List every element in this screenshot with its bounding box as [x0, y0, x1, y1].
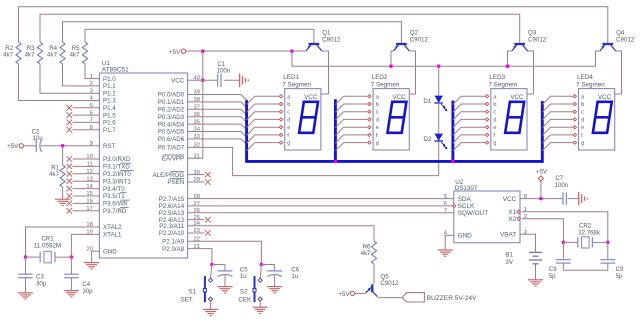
- svg-text:EA/VPP: EA/VPP: [162, 156, 184, 163]
- svg-text:e: e: [581, 125, 584, 131]
- svg-text:D1: D1: [423, 98, 431, 105]
- wire P0.5 to bus: [188, 132, 247, 138]
- switch S1: [209, 278, 213, 282]
- svg-text:+5V: +5V: [169, 49, 181, 56]
- bus horizontal: [245, 160, 542, 163]
- wire +5V to VCC: [540, 181, 542, 199]
- wire P0.0 to bus: [188, 95, 247, 101]
- svg-text:P0.0/AD0: P0.0/AD0: [158, 92, 185, 99]
- svg-text:P0.4/AD4: P0.4/AD4: [158, 121, 185, 128]
- no-connect X pin 13: [67, 178, 73, 184]
- svg-text:VCC: VCC: [171, 77, 185, 84]
- svg-text:GND: GND: [103, 249, 117, 256]
- svg-text:P1.3: P1.3: [103, 98, 116, 105]
- wire R3 to P1.2: [40, 64, 99, 93]
- wire C2 to RST: [41, 145, 99, 147]
- wire P2.1 to S2: [188, 241, 262, 264]
- wire P0.7 colon feed: [188, 141, 439, 175]
- wire base rail R3 to Q3: [40, 14, 520, 43]
- svg-text:32.768k: 32.768k: [578, 230, 601, 237]
- node CR1 right junction: [70, 255, 74, 259]
- transistor Q1: [309, 43, 320, 45]
- svg-text:VCC: VCC: [598, 94, 612, 101]
- U1 pin 25 stub: [188, 219, 205, 221]
- ground (C3): [18, 292, 33, 294]
- svg-text:Q1: Q1: [322, 29, 331, 36]
- svg-text:4k7: 4k7: [70, 52, 80, 59]
- svg-text:C9012: C9012: [616, 37, 635, 44]
- no-connect X pin 14: [67, 186, 73, 192]
- wire Q5 collector to buzzer: [377, 297, 402, 299]
- svg-text:SDA: SDA: [458, 196, 472, 203]
- svg-text:SET: SET: [181, 297, 193, 304]
- svg-text:1: 1: [90, 74, 93, 80]
- svg-text:CR2: CR2: [579, 223, 592, 230]
- wire junction to C5: [212, 265, 225, 271]
- no-connect X pin 30: [205, 172, 211, 178]
- wire C5 to ground: [224, 275, 226, 287]
- ground (S2): [253, 306, 268, 308]
- svg-text:1u: 1u: [240, 273, 247, 280]
- svg-text:P1.6: P1.6: [103, 120, 116, 127]
- wire C9 top: [607, 242, 609, 259]
- capacitor C9: [600, 259, 615, 261]
- wire R1 to ground: [62, 187, 64, 199]
- wire XTAL2 to crystal: [26, 227, 100, 257]
- svg-text:VCC: VCC: [510, 94, 524, 101]
- node Q2 emitter junction: [389, 64, 393, 68]
- svg-text:7 Segmen: 7 Segmen: [576, 82, 605, 89]
- no-connect X pin 10: [67, 156, 73, 162]
- bus vertical (LED3): [451, 101, 454, 162]
- wire P0.6 to bus: [188, 139, 247, 145]
- wire B1 to ground: [535, 264, 537, 280]
- svg-text:P2.7/A15: P2.7/A15: [159, 196, 185, 203]
- transistor Q2: [396, 43, 407, 45]
- transistor Q3: [514, 43, 525, 45]
- wires bus entries to LED3 pins: [453, 96, 485, 104]
- node S2 junction: [260, 263, 264, 267]
- no-connect X pin 8: [67, 127, 73, 133]
- wire base rail R5 to Q1: [85, 29, 314, 43]
- U1 pin 13 stub: [73, 180, 100, 182]
- svg-text:Q2: Q2: [410, 29, 419, 36]
- svg-text:P1.2: P1.2: [103, 90, 116, 97]
- svg-text:c: c: [287, 110, 290, 116]
- svg-text:D2: D2: [423, 136, 431, 143]
- svg-text:Q4: Q4: [616, 29, 625, 36]
- svg-text:X2: X2: [508, 216, 516, 223]
- no-connect X pin 29: [205, 179, 211, 185]
- node U2 VCC junction: [539, 197, 543, 201]
- wire crystal CR1 right lead: [55, 256, 71, 258]
- wire CR1 to C4: [70, 257, 72, 274]
- svg-text:b: b: [493, 102, 496, 108]
- svg-text:P3.2/INT0: P3.2/INT0: [103, 171, 131, 178]
- svg-text:C9012: C9012: [322, 37, 341, 44]
- svg-text:P3.0/RXD: P3.0/RXD: [103, 156, 131, 163]
- svg-text:P0.5/AD5: P0.5/AD5: [158, 129, 185, 136]
- wire +5V rail: [186, 50, 306, 52]
- svg-text:3: 3: [90, 88, 93, 94]
- wire Q4 emitter drop: [596, 51, 600, 66]
- svg-text:11.0592M: 11.0592M: [34, 243, 62, 250]
- wires bus entries to LED2 pins: [335, 96, 367, 104]
- svg-text:P1.1: P1.1: [103, 83, 116, 90]
- U1 pin 6 stub: [73, 114, 100, 116]
- U1 pin 30 stub: [188, 174, 205, 176]
- svg-text:P3.1/TXD: P3.1/TXD: [103, 164, 130, 171]
- svg-text:XTAL2: XTAL2: [103, 224, 122, 231]
- capacitor C3: [18, 273, 32, 275]
- svg-text:P2.1/A9: P2.1/A9: [162, 239, 185, 246]
- svg-text:LED2: LED2: [372, 74, 388, 81]
- node bus junction LED2: [334, 160, 338, 164]
- wires bus entries to LED1 pins: [247, 96, 280, 104]
- resistor R4: [60, 42, 65, 64]
- svg-text:7 Segmen: 7 Segmen: [371, 82, 400, 89]
- wire XTAL1 to crystal: [71, 234, 99, 257]
- node RST junction: [61, 144, 65, 148]
- ground (S1): [203, 308, 218, 310]
- svg-text:BUZZER 5V-24V: BUZZER 5V-24V: [427, 295, 477, 302]
- svg-text:C9012: C9012: [528, 37, 547, 44]
- wire P2.5 to SQW/OUT: [188, 212, 454, 214]
- capacitor C4: [64, 273, 78, 275]
- wire U1 GND: [92, 251, 100, 262]
- U1 pin 15 stub: [73, 195, 100, 197]
- wire C1 to ground: [224, 79, 240, 81]
- capacitor C8: [556, 259, 571, 261]
- bus vertical (LED2): [334, 99, 337, 161]
- svg-text:4k7: 4k7: [361, 250, 371, 257]
- svg-text:e: e: [493, 125, 496, 131]
- wire VBAT to B1: [520, 234, 536, 252]
- svg-text:P1.4: P1.4: [103, 105, 116, 112]
- resistor R5: [82, 42, 87, 64]
- svg-text:S1: S1: [188, 289, 196, 296]
- svg-text:XTAL1: XTAL1: [103, 232, 122, 239]
- no-connect X pin 7: [67, 120, 73, 126]
- wire Q3 emitter drop: [508, 51, 512, 66]
- svg-text:C9012: C9012: [410, 37, 429, 44]
- wire P2.0 to S1: [188, 249, 212, 265]
- ground (C1): [239, 74, 241, 87]
- svg-text:VCC: VCC: [393, 94, 407, 101]
- svg-text:100n: 100n: [555, 182, 569, 189]
- wire D1 to D2: [438, 103, 440, 134]
- svg-text:ALE/PROG: ALE/PROG: [153, 172, 185, 179]
- svg-text:g: g: [581, 141, 584, 147]
- U1 pin 5 stub: [73, 107, 100, 109]
- wire base rail R4 to Q2: [63, 22, 402, 43]
- U1 pin 12 stub: [73, 173, 100, 175]
- svg-text:3V: 3V: [505, 259, 513, 266]
- svg-text:d: d: [287, 117, 290, 123]
- svg-text:VCC: VCC: [304, 94, 318, 101]
- wires bus entries to LED4 pins: [542, 96, 573, 104]
- U1 pin 16 stub: [73, 202, 100, 204]
- svg-text:P3.5/T1: P3.5/T1: [103, 193, 125, 200]
- node rail-branch junction: [290, 49, 294, 53]
- svg-text:4k7: 4k7: [47, 52, 57, 59]
- wire C3 to ground: [25, 278, 27, 293]
- svg-text:e: e: [376, 125, 379, 131]
- bus vertical (LED4): [541, 101, 544, 163]
- svg-text:AT89C51: AT89C51: [102, 67, 129, 74]
- svg-text:g: g: [493, 141, 496, 147]
- no-connect X pin 11: [67, 164, 73, 170]
- ground (C5): [217, 286, 232, 288]
- svg-text:P3.6/WR: P3.6/WR: [103, 201, 128, 208]
- switch S2: [258, 278, 262, 282]
- svg-text:4k7: 4k7: [25, 52, 35, 59]
- wire R5 to P1.0: [85, 64, 99, 79]
- U1 pin 11 stub: [73, 165, 100, 167]
- terminal SCLK bubble: [453, 204, 456, 207]
- wire P0.3 to bus: [188, 117, 247, 123]
- U1 pin 17 stub: [73, 210, 100, 212]
- no-connect X pin 15: [67, 193, 73, 199]
- U1 pin 14 stub: [73, 188, 100, 190]
- svg-text:VCC: VCC: [503, 196, 517, 203]
- transistor Q4: [602, 43, 613, 45]
- wire junction to S2 top: [260, 265, 261, 279]
- svg-text:30p: 30p: [82, 288, 93, 295]
- wire R6 to Q5 base: [373, 264, 375, 284]
- node pin40 junction: [201, 78, 205, 82]
- svg-text:LED3: LED3: [489, 74, 505, 81]
- svg-text:c: c: [493, 110, 496, 116]
- svg-text:c: c: [376, 110, 379, 116]
- wire C6 to ground: [274, 275, 276, 287]
- wire R2 to P1.3: [19, 64, 100, 101]
- wire P2.3 to R6: [188, 226, 374, 241]
- node CR2 left junction: [562, 241, 566, 245]
- connector buzzer: [402, 293, 424, 302]
- svg-text:P1.7: P1.7: [103, 127, 116, 134]
- svg-text:C9012: C9012: [380, 280, 399, 287]
- svg-text:LED1: LED1: [283, 74, 299, 81]
- svg-text:4k7: 4k7: [49, 171, 59, 178]
- wire C8-C9 tie: [563, 263, 607, 270]
- node CR1 left junction: [24, 255, 28, 259]
- wire P0.2 to bus: [188, 109, 247, 115]
- no-connect X pin 12: [67, 171, 73, 177]
- wire Q1 collector to VCC pin: [321, 51, 329, 94]
- svg-text:5p: 5p: [616, 273, 623, 280]
- svg-text:GND: GND: [458, 233, 473, 240]
- svg-text:CR1: CR1: [41, 235, 54, 242]
- svg-text:B1: B1: [505, 252, 513, 259]
- svg-text:P1.5: P1.5: [103, 112, 116, 119]
- op-amp U1 AT89C51 body: [99, 73, 187, 258]
- resistor R6: [371, 241, 376, 264]
- no-connect X pin 6: [67, 112, 73, 118]
- wire C7 to ground: [568, 198, 579, 200]
- capacitor C6: [267, 270, 282, 272]
- resistor R2: [16, 42, 21, 64]
- svg-text:c: c: [581, 110, 584, 116]
- ground (C4): [64, 290, 79, 292]
- wire P2.6 to SCLK: [188, 205, 454, 207]
- wire crystal CR1 left lead: [26, 256, 41, 258]
- svg-text:d: d: [376, 117, 379, 123]
- svg-text:LED4: LED4: [577, 74, 593, 81]
- svg-text:P2.3/A11: P2.3/A11: [159, 223, 185, 230]
- svg-text:RST: RST: [103, 143, 116, 150]
- U1 pin 7 stub: [73, 121, 100, 123]
- wire U2 GND: [445, 235, 454, 249]
- IC U2 DS1307 body: [454, 191, 520, 243]
- wire S2 to ground: [259, 301, 261, 307]
- svg-text:S2: S2: [240, 289, 248, 296]
- node D1 anode junction: [437, 64, 441, 68]
- no-connect X pin 23: [205, 230, 211, 236]
- svg-text:d: d: [493, 117, 496, 123]
- wire crystal left lead: [563, 241, 577, 243]
- wire X2 to crystal left: [522, 219, 564, 243]
- svg-text:P0.6/AD6: P0.6/AD6: [158, 136, 185, 143]
- svg-text:SQW/OUT: SQW/OUT: [458, 210, 489, 217]
- node Q3 emitter junction: [506, 64, 510, 68]
- bus vertical (LED1): [245, 100, 248, 161]
- svg-text:b: b: [376, 102, 379, 108]
- wire CR1 to C3: [25, 257, 27, 274]
- wire Q3 collector to VCC pin: [527, 51, 534, 94]
- no-connect X pin 16: [67, 201, 73, 207]
- wire X1 to crystal right: [522, 212, 608, 243]
- svg-text:P0.7/AD7: P0.7/AD7: [158, 145, 185, 152]
- svg-text:P0.3/AD3: P0.3/AD3: [158, 114, 185, 121]
- wire P2.7 to SDA: [188, 198, 454, 200]
- svg-text:DS1307: DS1307: [455, 185, 478, 192]
- no-connect X pin 25: [205, 217, 211, 223]
- ground (U2): [438, 249, 453, 251]
- U1 pin 8 stub: [73, 129, 100, 131]
- U1 pin 10 stub: [73, 158, 100, 160]
- wire Q2 collector to VCC pin: [409, 51, 415, 94]
- LED D2: [434, 134, 443, 141]
- wire Q4 collector to VCC pin: [615, 51, 622, 94]
- svg-text:P2.2/A10: P2.2/A10: [159, 230, 185, 237]
- svg-text:CEK: CEK: [238, 297, 252, 304]
- wire +5V to Q5 emitter: [355, 292, 366, 294]
- svg-text:30p: 30p: [36, 280, 47, 287]
- resistor R1: [60, 165, 65, 187]
- wire Q2 emitter drop: [391, 51, 393, 66]
- svg-text:100n: 100n: [217, 68, 231, 75]
- wire base rail R2 to Q4: [19, 7, 608, 43]
- svg-text:+5V: +5V: [536, 168, 548, 175]
- svg-text:g: g: [376, 141, 379, 147]
- wire junction to R1: [62, 146, 64, 165]
- svg-text:4k7: 4k7: [3, 52, 13, 59]
- wire C4 to ground: [70, 278, 72, 291]
- svg-text:P0.2/AD2: P0.2/AD2: [158, 107, 185, 114]
- node bus junction LED3: [451, 160, 455, 164]
- node CR2 right junction: [606, 241, 610, 245]
- wire junction to S1 top: [211, 265, 212, 279]
- wire C8 top: [562, 242, 564, 259]
- ground (C7): [578, 192, 580, 205]
- no-connect X pin 5: [67, 105, 73, 111]
- svg-text:g: g: [287, 141, 290, 147]
- resistor R3: [37, 42, 42, 64]
- svg-text:5p: 5p: [549, 273, 556, 280]
- svg-text:b: b: [581, 102, 584, 108]
- wire S1 to ground: [210, 301, 212, 309]
- no-connect X pin 17: [67, 208, 73, 214]
- node S1 junction: [210, 263, 214, 267]
- svg-text:P1.0: P1.0: [103, 76, 116, 83]
- svg-text:P2.0/A8: P2.0/A8: [162, 246, 185, 253]
- svg-text:e: e: [287, 125, 290, 131]
- svg-text:7 Segmen: 7 Segmen: [282, 82, 311, 89]
- svg-text:1u: 1u: [291, 273, 298, 280]
- node rail-C1 junction: [201, 49, 205, 53]
- svg-text:X1: X1: [508, 209, 516, 216]
- terminal X1: [517, 210, 521, 214]
- svg-text:PSEN: PSEN: [167, 179, 184, 186]
- wire P0.4 to bus: [188, 124, 247, 130]
- svg-text:b: b: [287, 102, 290, 108]
- wire +5V to C2: [24, 145, 37, 147]
- U1 pin 23 stub: [188, 232, 205, 234]
- ground (U1 pin 20): [84, 262, 99, 264]
- svg-text:d: d: [581, 117, 584, 123]
- svg-text:VBAT: VBAT: [500, 232, 516, 239]
- ground (C6): [267, 286, 282, 288]
- U1 pin 29 stub: [188, 181, 205, 183]
- wire +5V to pin40 and EA: [188, 51, 203, 158]
- wire crystal right lead: [592, 241, 607, 243]
- svg-text:+5V: +5V: [7, 143, 19, 150]
- svg-text:P3.7/RD: P3.7/RD: [103, 208, 127, 215]
- wire pin40 VCC to C1: [188, 79, 218, 81]
- wire R4 to P1.1: [63, 64, 100, 86]
- svg-text:P3.4/T0: P3.4/T0: [103, 186, 125, 193]
- wire U2 VCC to C7: [520, 198, 563, 200]
- capacitor C5: [218, 270, 233, 272]
- svg-text:+5V: +5V: [338, 291, 350, 298]
- wire P0.1 to bus: [188, 102, 247, 108]
- wire +5V branch to lower rail: [292, 51, 596, 66]
- svg-text:P3.3/INT1: P3.3/INT1: [103, 178, 131, 185]
- wire +5V to D1: [438, 66, 440, 95]
- ground (B1): [528, 279, 543, 281]
- svg-text:2: 2: [90, 81, 93, 87]
- transistor Q5: [371, 284, 373, 292]
- svg-text:7 Segmen: 7 Segmen: [488, 82, 517, 89]
- svg-text:P0.1/AD1: P0.1/AD1: [158, 99, 185, 106]
- wire junction to C6: [261, 265, 274, 271]
- LED D1: [434, 96, 443, 103]
- terminal X2: [517, 217, 521, 221]
- svg-text:Q3: Q3: [528, 29, 537, 36]
- ground (R1): [55, 198, 70, 200]
